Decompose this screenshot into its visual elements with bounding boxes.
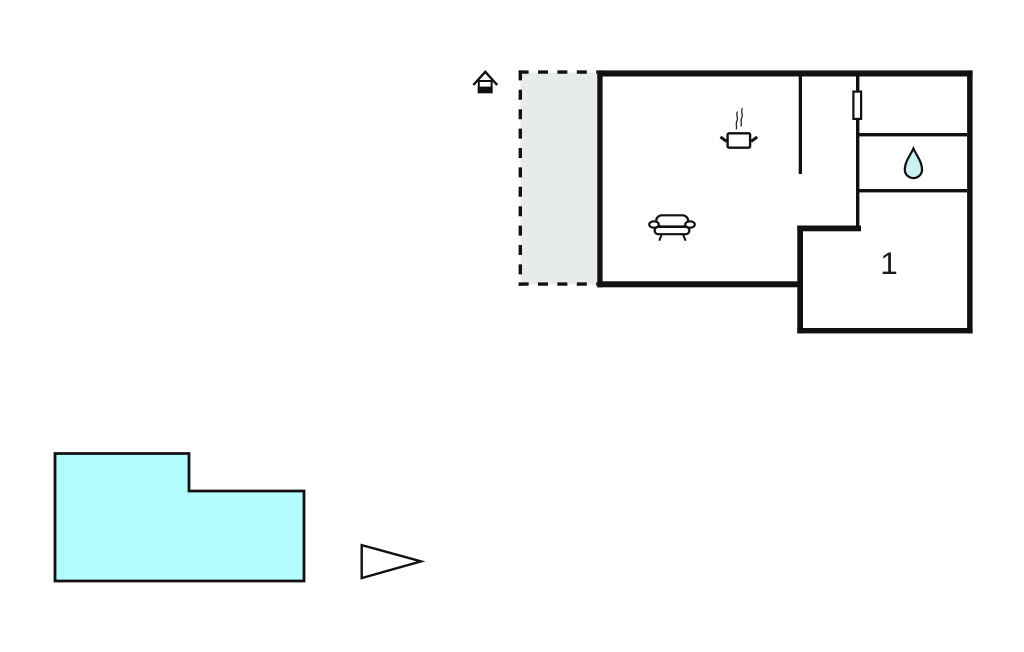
partition kitchen (799, 77, 802, 175)
house icon roof (473, 72, 497, 85)
terrace gray fill (521, 73, 598, 285)
partition bathroom top (856, 133, 967, 136)
terrace dashed border bottom (519, 282, 598, 285)
partition bathroom bottom (856, 189, 967, 192)
pot steam left (736, 112, 737, 130)
sofa leg left (659, 235, 661, 241)
wall bottom of room 1 (797, 328, 972, 333)
sofa leg right (683, 235, 685, 241)
wall bottom of main room (597, 281, 803, 287)
terrace dashed border left (519, 70, 522, 285)
wall step above room 1 (797, 226, 861, 232)
wall left of main room (597, 70, 602, 287)
radiator on partition (853, 92, 861, 119)
water drop (905, 149, 922, 179)
wall top outer (597, 70, 972, 76)
house icon base (478, 87, 493, 94)
wall left of room 1 (797, 226, 803, 334)
partition right vertical (856, 77, 859, 230)
pool (55, 454, 304, 582)
sofa armrest right (685, 221, 695, 227)
pot body (728, 133, 751, 147)
house icon body (479, 81, 492, 92)
svg-text:1: 1 (880, 245, 898, 281)
sofa backrest (656, 215, 688, 226)
direction arrow (362, 545, 421, 578)
sofa seat (655, 227, 690, 234)
pot steam right (741, 108, 742, 126)
terrace dashed border top (519, 70, 598, 73)
wall right outer (967, 70, 973, 333)
pot handle right (751, 137, 757, 142)
pot handle left (721, 137, 727, 142)
sofa armrest left (649, 221, 659, 227)
